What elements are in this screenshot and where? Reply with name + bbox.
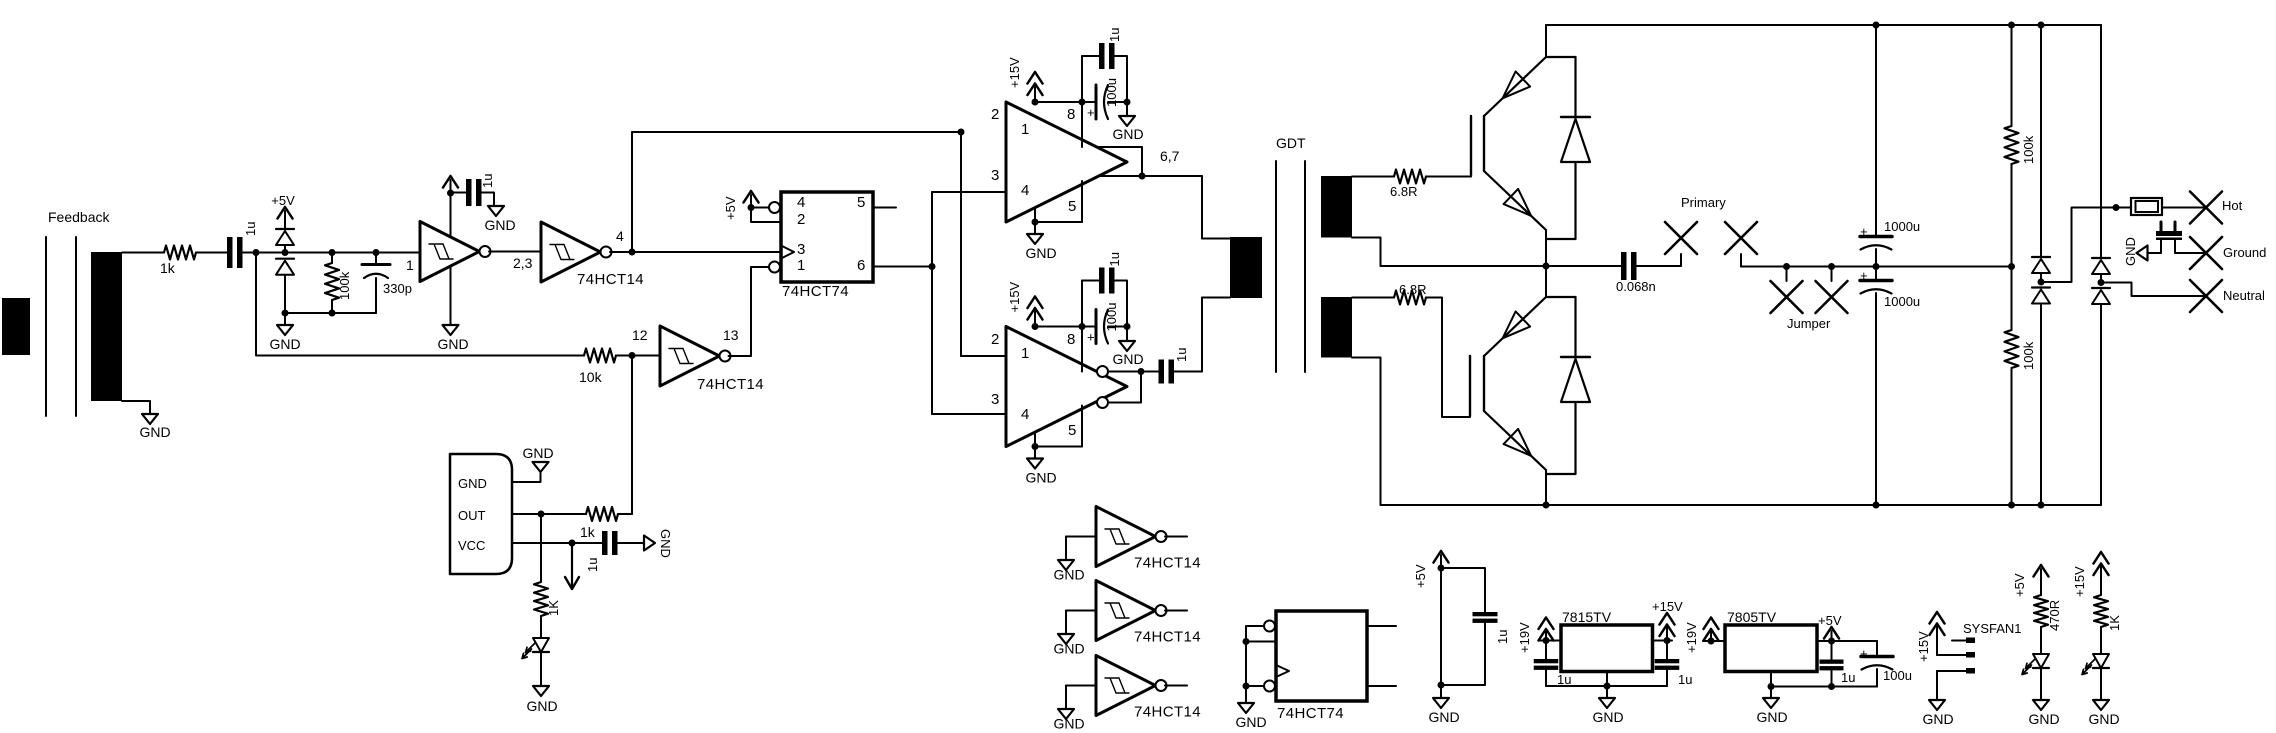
svg-text:100k: 100k [2021, 341, 2036, 370]
IC pin names [458, 476, 487, 553]
label Jumper [1787, 316, 1831, 331]
LED2 [2022, 654, 2049, 675]
ground driver bottom cap [1112, 327, 1143, 368]
svg-text:13: 13 [723, 327, 739, 343]
svg-text:1u: 1u [1495, 630, 1510, 644]
ground spare inverter E [1053, 634, 1084, 657]
FF pin4 bubble [769, 202, 780, 213]
wire fan pin2 [1937, 654, 1966, 656]
wire cap to primary [1637, 254, 1682, 266]
ground FF2 [1235, 703, 1266, 730]
pin labels 12 13 [632, 327, 739, 343]
svg-text:+: + [1860, 268, 1868, 283]
driver U4 bottom triangle [1006, 327, 1127, 447]
wire gate bottom [1426, 298, 1470, 418]
resistor 1K led [534, 582, 561, 616]
svg-text:74HCT74: 74HCT74 [782, 283, 849, 300]
svg-text:3: 3 [991, 391, 999, 408]
svg-text:6,7: 6,7 [1160, 148, 1180, 164]
ground cap inverter1 [484, 206, 515, 233]
svg-text:GND: GND [1756, 709, 1787, 725]
wire 1k to C 1u [196, 252, 227, 254]
svg-text:+15V: +15V [1007, 281, 1022, 312]
terminal Primary 2 [1725, 222, 1757, 267]
wire IC vcc pin [512, 540, 602, 547]
wire neutral jog [2101, 283, 2206, 297]
pin label 1 [406, 257, 414, 273]
svg-text:+5V: +5V [723, 196, 738, 220]
wire reg2 out [1817, 638, 1877, 645]
svg-text:+19V: +19V [1684, 622, 1699, 653]
power +5V bypass [1413, 551, 1449, 588]
wire clamp bottom [282, 310, 377, 317]
power +19V reg2 label [1684, 622, 1699, 653]
svg-text:0.068n: 0.068n [1616, 279, 1656, 294]
svg-text:+: + [1860, 646, 1868, 661]
svg-text:GND: GND [1922, 711, 1953, 727]
wire reg2 gnd rail [1768, 672, 1878, 691]
wire driver top gnd rail [1032, 181, 1083, 234]
wire node4 to amps [958, 129, 1007, 357]
svg-text:4: 4 [616, 228, 624, 244]
resistor 10k [579, 349, 616, 386]
svg-text:1: 1 [1021, 121, 1029, 138]
svg-text:GND: GND [1053, 716, 1084, 732]
wire winding to GND [122, 401, 150, 414]
svg-text:12: 12 [632, 327, 648, 343]
connector SYSFAN1 pins [1963, 621, 2022, 674]
svg-text:2,3: 2,3 [513, 255, 533, 271]
svg-text:74HCT14: 74HCT14 [577, 271, 644, 288]
svg-text:Neutral: Neutral [2223, 288, 2265, 303]
wire hot jog [2041, 204, 2131, 282]
flip-flop U2B 74HCT74 box [1276, 611, 1367, 722]
inverter U1D 74HCT14 [1096, 507, 1201, 572]
power +15V fan [1916, 612, 1945, 662]
power +15V out [1652, 599, 1683, 644]
svg-text:GND: GND [139, 424, 170, 440]
svg-text:GND: GND [458, 476, 487, 491]
power +5V led1 [2012, 565, 2049, 597]
capacitor 1u reg2 out [1820, 641, 1856, 687]
capacitor 1u driver top [1082, 28, 1127, 102]
svg-text:1u: 1u [1107, 252, 1122, 266]
flip-flop U2 74HCT74 box [781, 192, 873, 300]
ground LED1 [526, 686, 557, 714]
wire spare inverter F out [1165, 685, 1187, 687]
wire 10k to inv3 [616, 352, 660, 359]
svg-text:OUT: OUT [458, 508, 486, 523]
svg-text:1u: 1u [1557, 672, 1571, 687]
diode D1 freewheel [1546, 57, 1590, 239]
power arrow inverter1 [443, 176, 458, 237]
capacitor 1u driver bottom [1082, 252, 1127, 326]
svg-text:+15V: +15V [2072, 566, 2087, 597]
wire led2 gnd [2040, 668, 2042, 700]
svg-text:GND: GND [1025, 470, 1056, 486]
svg-text:+15V: +15V [1916, 631, 1931, 662]
wire Q2 collector [1545, 266, 1547, 297]
svg-text:1u: 1u [480, 174, 495, 188]
GDT core [1276, 161, 1305, 372]
feedback transformer winding [91, 252, 122, 401]
wire spare inverter D out [1165, 536, 1187, 538]
wire FF pin2 [751, 208, 781, 223]
svg-text:4: 4 [1021, 406, 1029, 423]
FF2 pin bubbles [1264, 621, 1275, 692]
svg-text:GND: GND [484, 217, 515, 233]
wire bypass loop [1438, 568, 1486, 689]
ground spare inverter F [1053, 709, 1084, 732]
GDT secondary winding top [1321, 176, 1352, 238]
wire winding to R 1k [122, 252, 164, 254]
wire main line [243, 249, 421, 256]
resistor 6.8R bottom [1394, 282, 1426, 305]
svg-text:+: + [1087, 330, 1095, 345]
resistor 1k out [580, 507, 618, 540]
wire GDT sec-bot to R [1352, 297, 1394, 299]
svg-text:330p: 330p [383, 281, 412, 296]
inverter U1B 74HCT14 [541, 222, 644, 288]
wire fuse to Hot [2162, 207, 2206, 209]
wire FF pin6 [873, 263, 936, 270]
svg-text:1u: 1u [243, 222, 258, 236]
resistor 6.8R top [1390, 170, 1426, 200]
svg-text:100k: 100k [337, 271, 352, 300]
svg-text:+5V: +5V [1818, 613, 1842, 628]
svg-text:74HCT14: 74HCT14 [1134, 555, 1201, 572]
wire FF pin5 stub [873, 207, 896, 209]
ground chassis [2123, 237, 2148, 266]
resistor 100k upper [2005, 25, 2037, 270]
ground led3 [2088, 700, 2119, 727]
svg-text:1u: 1u [1174, 348, 1189, 362]
ground IC [522, 445, 553, 472]
power +15V led2 [2072, 552, 2109, 597]
svg-text:+5V: +5V [2012, 573, 2027, 597]
diode clamp lower [276, 259, 294, 313]
wire pin8 riser [1081, 102, 1083, 147]
svg-text:GND: GND [1053, 567, 1084, 583]
terminal Ground [2190, 237, 2266, 269]
svg-text:74HCT14: 74HCT14 [1134, 704, 1201, 721]
wire Q1 emitter [1545, 230, 1547, 266]
svg-text:+19V: +19V [1517, 622, 1532, 653]
terminal Neutral [2190, 280, 2265, 312]
wire primary2 to bus [1741, 263, 2012, 270]
wire FF2 out1 [1367, 625, 1396, 627]
wire FF2 out2 [1367, 685, 1396, 687]
svg-text:GND: GND [1025, 245, 1056, 261]
svg-text:GND: GND [1112, 351, 1143, 367]
diode D2 freewheel [1546, 297, 1590, 474]
wire GDT sec-top bottom [1352, 238, 1381, 267]
svg-text:1u: 1u [585, 558, 600, 572]
svg-text:8: 8 [1067, 331, 1075, 348]
svg-text:GND: GND [1112, 126, 1143, 142]
svg-text:10k: 10k [579, 369, 603, 385]
svg-text:74HCT14: 74HCT14 [697, 376, 764, 393]
wire r470 to led [2040, 627, 2042, 654]
svg-text:GND: GND [269, 336, 300, 352]
ground driver bottom [1025, 459, 1056, 486]
svg-text:1: 1 [1021, 345, 1029, 362]
wire node4 riser [632, 132, 961, 252]
svg-text:6.8R: 6.8R [1390, 184, 1417, 199]
FF clock wedge [781, 246, 794, 259]
resistor 100k input [325, 253, 352, 317]
resistor 1K led2 [2094, 595, 2122, 631]
wire gate top [1426, 176, 1471, 178]
svg-text:1K: 1K [2107, 615, 2122, 631]
ground bypass [1428, 685, 1459, 725]
spare inverter D input wire [1066, 537, 1096, 561]
svg-text:1k: 1k [580, 524, 596, 540]
ground clamp [269, 313, 300, 352]
svg-text:+: + [1860, 224, 1868, 239]
svg-text:GND: GND [658, 529, 673, 558]
svg-text:1u: 1u [1678, 672, 1692, 687]
capacitor 100u driver top [1087, 78, 1119, 120]
wire bottom rail [1381, 502, 2102, 509]
label GDT [1276, 135, 1306, 151]
capacitor 1u feedback [227, 222, 258, 268]
svg-text:6: 6 [857, 257, 865, 274]
wire to GDT top [1202, 176, 1230, 239]
svg-text:2: 2 [991, 106, 999, 123]
feedback transformer core [46, 237, 76, 416]
svg-text:1K: 1K [546, 600, 561, 616]
wire driver bottom output [1108, 368, 1145, 403]
svg-text:+: + [1087, 105, 1095, 120]
driver U3 top triangle [1006, 102, 1127, 222]
FF2 clock wedge [1276, 665, 1289, 677]
ground spare inverter D [1053, 560, 1084, 583]
wire FF2 tie [1243, 626, 1277, 703]
supply arrow down [565, 543, 579, 589]
ground driver top [1025, 234, 1056, 261]
wire cap to gnd [618, 542, 645, 544]
svg-text:1k: 1k [160, 260, 176, 276]
power +5V out [1818, 613, 1842, 641]
svg-text:7815TV: 7815TV [1562, 609, 1612, 625]
capacitor 1u vcc [585, 531, 618, 572]
power +5V clamp [271, 193, 295, 229]
svg-text:5: 5 [1068, 198, 1076, 215]
capacitor 100u reg2 [1860, 641, 1912, 687]
svg-text:470R: 470R [2047, 600, 2062, 631]
terminal Hot [2190, 192, 2243, 224]
FF pin labels [797, 194, 865, 274]
wire midpoint [1381, 263, 1622, 270]
svg-text:VCC: VCC [458, 538, 485, 553]
capacitor 1u bypass [1473, 612, 1511, 644]
wire reg1 gnd rail [1546, 672, 1667, 690]
transistor Q1 IGBT [1471, 57, 1576, 230]
svg-text:100k: 100k [2021, 135, 2036, 164]
svg-text:+5V: +5V [1413, 564, 1428, 588]
wire 1k to node12 [618, 513, 632, 515]
power +5V FF [723, 191, 759, 220]
svg-text:1u: 1u [1107, 28, 1122, 42]
terminal Jumper 2 [1816, 267, 1848, 314]
ground driver top cap [1112, 102, 1143, 142]
wire drop to lower path [256, 253, 584, 356]
svg-text:GND: GND [2123, 237, 2138, 266]
power +15V driver top [1007, 57, 1043, 106]
regulator U6 7815TV [1561, 609, 1653, 672]
inverter U1E 74HCT14 [1096, 581, 1201, 646]
feedback antenna pad [2, 298, 30, 355]
svg-text:1: 1 [797, 257, 805, 274]
terminal Primary 1 [1665, 222, 1697, 254]
wire inv3 to FF pin1 [729, 267, 770, 356]
svg-text:GND: GND [522, 445, 553, 461]
wire bridge left leg [2040, 25, 2042, 257]
capacitor 1u coupling [1141, 348, 1202, 384]
svg-text:GND: GND [1053, 641, 1084, 657]
svg-text:Jumper: Jumper [1787, 316, 1831, 331]
svg-text:GND: GND [2088, 711, 2119, 727]
wire led3 gnd [2100, 668, 2102, 700]
wire to GDT bottom [1202, 298, 1230, 372]
power +19V reg2 in [1703, 618, 1725, 645]
wire spare inverter E out [1165, 610, 1187, 612]
driver U3 pin labels [991, 106, 1076, 215]
ground reg1 [1592, 686, 1623, 725]
wire fan pin3 [1937, 671, 1966, 700]
svg-text:2: 2 [797, 211, 805, 228]
svg-text:+15V: +15V [1007, 57, 1022, 88]
svg-text:3: 3 [797, 241, 805, 258]
wire driver bottom rail [1035, 323, 1131, 330]
diode clamp upper [276, 229, 294, 253]
wire r1k to led [2100, 627, 2102, 654]
wire pin8 riser bottom [1081, 327, 1083, 372]
capacitor 100u driver bottom [1087, 303, 1119, 345]
wire node12 drop [631, 356, 633, 515]
svg-text:1000u: 1000u [1884, 294, 1920, 309]
wire led to gnd [540, 652, 542, 686]
ground led2 [2028, 700, 2059, 727]
driver U4 pin labels [991, 331, 1076, 439]
wire driver bottom gnd rail [1032, 406, 1083, 459]
wire bridge right leg [2100, 25, 2102, 258]
svg-text:7805TV: 7805TV [1727, 609, 1777, 625]
capacitor 1u reg1 out [1655, 641, 1693, 688]
wire driver top output [1097, 147, 1202, 180]
svg-text:1000u: 1000u [1884, 219, 1920, 234]
wire reg1 out [1653, 640, 1673, 642]
svg-text:GND: GND [1592, 709, 1623, 725]
terminal Jumper 1 [1771, 267, 1803, 314]
svg-text:Hot: Hot [2222, 198, 2243, 213]
label Feedback [48, 209, 110, 225]
wire bond to ground terminal [2175, 240, 2206, 253]
svg-text:+15V: +15V [1652, 599, 1683, 614]
fuse F1 [2131, 198, 2162, 215]
svg-text:74HCT14: 74HCT14 [1134, 629, 1201, 646]
wire pin6 net to amps [932, 192, 1006, 414]
wire inv1 to inv2 [489, 252, 541, 272]
svg-text:GND: GND [2028, 711, 2059, 727]
svg-text:Primary: Primary [1681, 195, 1726, 210]
svg-text:100u: 100u [1104, 303, 1119, 332]
svg-text:3: 3 [991, 167, 999, 184]
svg-text:GND: GND [526, 698, 557, 714]
wire Q2 emitter [1545, 470, 1547, 505]
IC U5 outline [450, 454, 512, 574]
wire GDT sec-bot bottom [1352, 358, 1381, 506]
svg-text:74HCT74: 74HCT74 [1277, 705, 1344, 722]
svg-text:Ground: Ground [2223, 245, 2266, 260]
inverter U1A 74HCT14 [420, 222, 491, 282]
diode D4 bridge [2032, 288, 2050, 506]
resistor 1k [160, 246, 196, 277]
chassis bond connector [2156, 222, 2182, 240]
svg-text:100u: 100u [1104, 78, 1119, 107]
wire IC gnd pin [512, 472, 541, 482]
diode D5 bridge [2092, 258, 2110, 286]
svg-text:Feedback: Feedback [48, 209, 110, 225]
spare inverter F input wire [1066, 686, 1096, 710]
GDT secondary winding bottom [1321, 297, 1352, 358]
wire Q1 collector [1545, 25, 1547, 57]
svg-text:GND: GND [1235, 714, 1266, 730]
svg-text:GND: GND [1428, 709, 1459, 725]
ground fan [1922, 700, 1953, 727]
regulator U7 7805TV [1725, 609, 1817, 672]
capacitor 0.068n [1616, 252, 1656, 294]
svg-text:6.8R: 6.8R [1399, 282, 1426, 297]
ground vcc cap [644, 529, 673, 558]
GDT primary winding [1230, 237, 1262, 298]
diode D3 bridge [2032, 257, 2050, 286]
LED1 [522, 638, 549, 659]
svg-text:SYSFAN1: SYSFAN1 [1963, 621, 2022, 636]
capacitor 1000u top [1860, 25, 1920, 267]
svg-text:4: 4 [797, 194, 805, 211]
svg-text:2: 2 [991, 331, 999, 348]
inverter U1F 74HCT14 [1096, 656, 1201, 721]
capacitor 1u reg1 in [1534, 641, 1572, 688]
transistor Q2 IGBT [1470, 297, 1576, 470]
ground reg2 [1756, 687, 1787, 726]
wire r to led [540, 616, 542, 638]
resistor 100k lower [2005, 267, 2037, 506]
svg-text:GDT: GDT [1276, 135, 1306, 151]
diode D6 bridge [2092, 288, 2110, 505]
svg-text:5: 5 [1068, 422, 1076, 439]
spare inverter E input wire [1066, 611, 1096, 635]
wire GDT sec-top to R [1352, 176, 1394, 178]
wire out to led [540, 514, 542, 582]
label Primary [1681, 195, 1726, 210]
FF pin1 bubble [769, 262, 780, 273]
driver bottom output bubbles [1097, 366, 1108, 408]
capacitor 1000u bottom [1860, 267, 1920, 506]
resistor 470R [2034, 595, 2062, 631]
power +15V driver bottom [1007, 281, 1043, 330]
wire IC out pin [512, 511, 586, 518]
svg-text:5: 5 [857, 194, 865, 211]
power +19V in [1517, 618, 1554, 654]
inverter U1C 74HCT14 [660, 326, 764, 393]
wire fan pin1 stub [1952, 640, 1966, 642]
wire driver top rail [1035, 99, 1131, 106]
capacitor 330p [362, 253, 412, 314]
wire bond to gnd [2148, 240, 2161, 253]
